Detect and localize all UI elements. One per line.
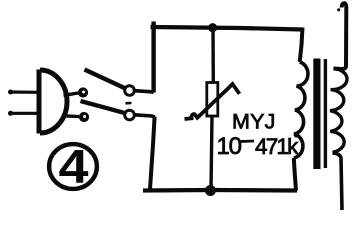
plug P1 (AC mains plug body) (39, 70, 67, 134)
transformer T1 primary winding (294, 62, 308, 158)
figure number 4 (circled) (49, 140, 97, 193)
junction node (bottom, varistor tap) (205, 185, 216, 196)
transformer T1 secondary winding (330, 69, 347, 153)
svg-text:MYJ: MYJ (232, 110, 276, 134)
switch S1 arm (bottom pole, open) (81, 101, 125, 113)
svg-text:4: 4 (59, 140, 89, 193)
speck after label (295, 133, 298, 138)
wire plug to switch terminal (top lead) (64, 93, 79, 95)
switch S1 right terminal (bottom pole) (125, 110, 135, 120)
transformer T1 secondary bottom lead (333, 153, 343, 210)
wire varistor branch (bottom) (211, 116, 212, 191)
plug prong (bottom) (8, 111, 38, 116)
transformer T1 primary top stub (300, 28, 303, 63)
switch S1 left terminal (bottom pole) (79, 112, 89, 122)
wire varistor branch (top) (211, 28, 215, 83)
switch S1 arm (top pole, open) (85, 70, 126, 89)
switch S1 gang link dash (126, 102, 132, 105)
varistor RV1 diagonal stroke (185, 84, 240, 119)
transformer T1 secondary top lead with hook (334, 3, 347, 69)
wire loop top side (151, 27, 303, 30)
varistor RV1 body (MYJ) (207, 83, 218, 117)
switch S1 right terminal (top pole) (125, 86, 135, 96)
wire loop left vertical (bottom conductor, down) (150, 117, 155, 190)
wire switch top terminal to loop top-left (135, 91, 154, 93)
svg-text:10: 10 (217, 133, 242, 160)
wire loop bottom side (143, 188, 297, 193)
wire switch bottom terminal to loop bottom-left (135, 115, 155, 117)
plug prong (top) (8, 90, 38, 95)
transformer T1 primary bottom stub (294, 158, 296, 191)
transformer T1 core bar (right, thin) (324, 59, 327, 168)
wire loop left vertical (top conductor, up) (151, 22, 155, 93)
junction node (top, varistor tap) (208, 23, 217, 32)
svg-text:471k: 471k (255, 134, 299, 159)
switch S1 left terminal (top pole) (78, 87, 88, 97)
transformer T1 core bar (left, thick) (313, 59, 320, 170)
wire plug to switch terminal (bottom lead) (64, 114, 80, 118)
